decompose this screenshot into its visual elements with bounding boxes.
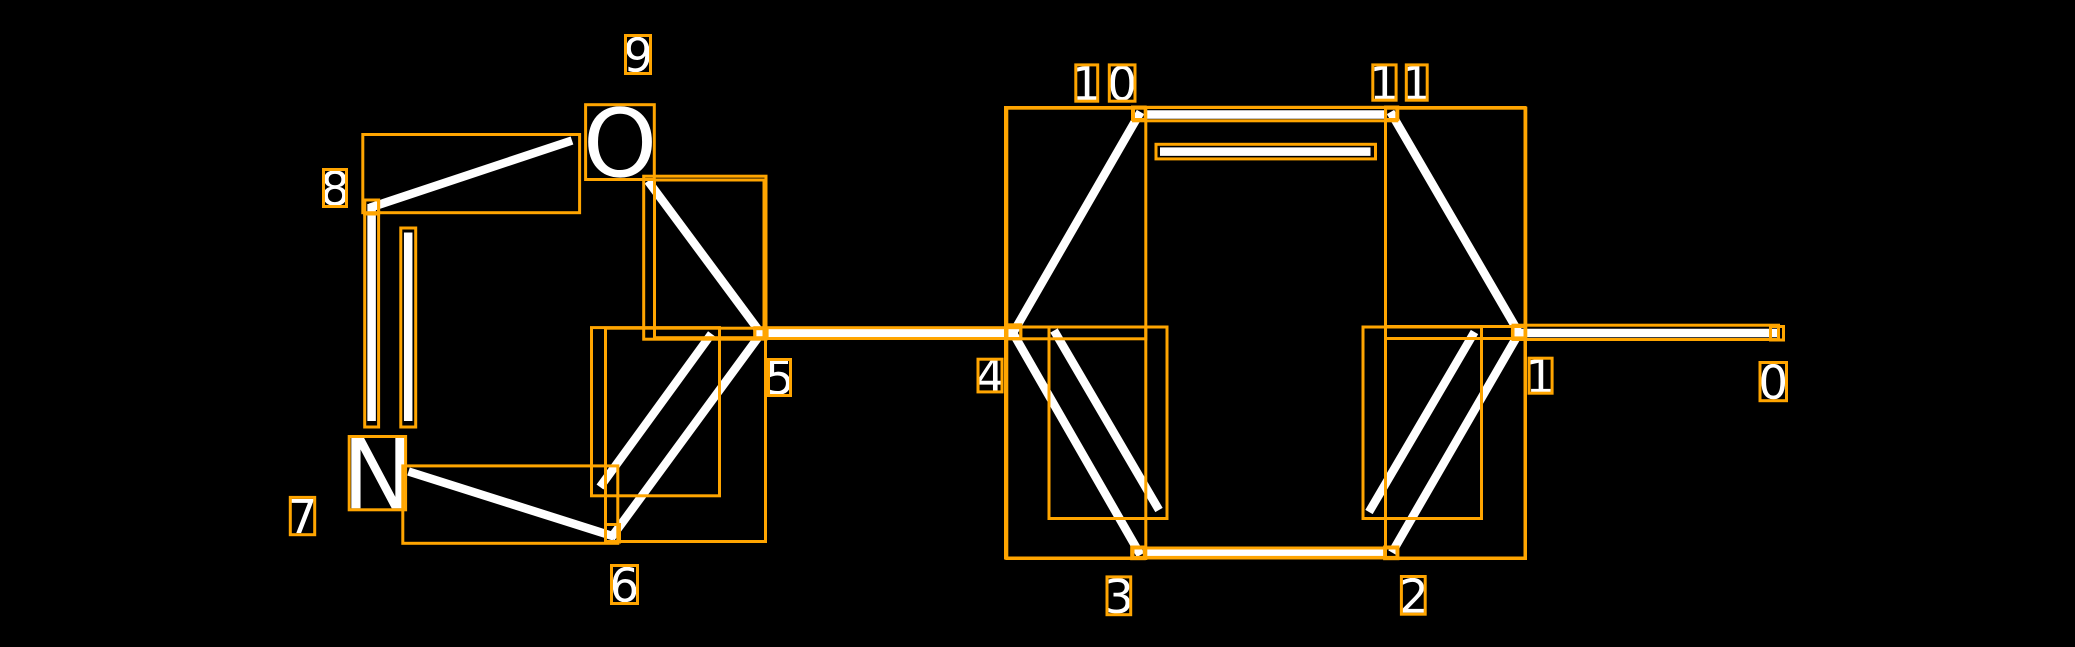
label 10a digit 1 [1077,66,1097,100]
atom 11 marker box [1386,107,1398,120]
atom N7 letter [351,438,404,508]
bond 11-1 box [1386,108,1526,338]
bond 8-7 outer box [365,200,379,427]
atom 5 marker box [755,329,767,339]
bond 9-8 box [363,135,580,213]
label 10b digit 0 [1110,65,1134,100]
bond 10-11 inner line [1160,147,1371,156]
label 8 box [324,170,347,207]
label 9 digit 9 [626,37,650,72]
bond 5-9 [648,181,763,336]
bond 5-9 nested box [655,180,765,338]
bond 6-5 outer line [611,332,763,539]
atom 8 marker box [365,200,379,214]
bond 6-5 inner line [600,334,712,487]
label 1 box [1529,358,1552,393]
atom 6 marker box [606,525,620,543]
label 7 digit 7 [292,499,314,533]
atom 4 marker box [1007,325,1021,339]
label 11b digit 1 [1407,65,1427,99]
bond 2-3 box [1133,548,1397,557]
atom 2 marker box [1385,547,1398,559]
label 4 digit 4 [978,358,1003,392]
bond 8-7 inner box [401,228,416,427]
atom 1 marker box [1512,327,1525,338]
bond 3-4 outer box [1007,327,1146,559]
label 10b box [1109,65,1135,101]
label 2 digit 2 [1402,578,1424,613]
bond 7-6 [409,472,615,537]
bond 5-9 box [644,176,766,339]
bond 9-8 [370,141,572,208]
label 9 box [626,36,651,74]
bond 6-5 inner box [592,328,720,496]
label 1 digit 1 [1530,359,1550,393]
atom 7 (N) letter box [349,437,405,510]
bond 8-7 inner line [404,233,413,422]
bond 1-2 outer box [1386,327,1526,559]
label 2 box [1401,577,1425,615]
bond 8-7 outer line [367,204,376,421]
label 10a box [1076,65,1098,101]
bond 10-11 outer box [1134,107,1397,121]
atom O9 letter [588,106,652,177]
bond 0-1 [1518,329,1777,338]
bond 4-5 [754,329,1016,338]
bond 1-2 inner box [1363,327,1482,519]
label 6 digit 6 [613,567,637,602]
label 7 box [290,497,314,534]
label 4 box [978,359,1002,392]
bond 10-11 outer line [1145,110,1386,119]
bond 4-5 box [755,328,1021,339]
bond 6-5 outer box [606,328,766,541]
bond 4-10 [1012,112,1141,336]
bond 2-3 [1145,549,1386,558]
atom 10 marker box [1133,107,1146,120]
bond 4-10 box [1007,108,1146,339]
label 0 box [1760,363,1787,401]
label 11b box [1406,65,1427,100]
label 5 digit 5 [768,360,790,395]
label 11a digit 1 [1374,65,1394,99]
label 3 digit 3 [1108,578,1131,613]
label 5 box [769,360,791,396]
bond 0-1 box [1513,325,1779,339]
label 3 box [1107,577,1131,615]
atom 9 (O) letter box [586,105,655,180]
bond 3-4 inner box [1049,327,1167,519]
bond 1-2 outer line [1392,331,1521,553]
label 8 digit 8 [323,170,346,205]
bond 3-4 outer line [1012,331,1141,556]
bond 3-4 inner line [1054,331,1159,511]
atom 0 marker box [1771,327,1784,341]
label 11a box [1373,65,1396,100]
label 6 box [612,566,638,604]
label 0 digit 0 [1761,364,1785,399]
atom 3 marker box [1132,547,1145,559]
benzene ring bounding box [1006,108,1526,559]
bond 11-1 [1391,112,1521,336]
bond 10-11 inner box [1156,144,1376,159]
bond 7-6 box [403,466,618,543]
bond 1-2 inner line [1369,332,1475,512]
